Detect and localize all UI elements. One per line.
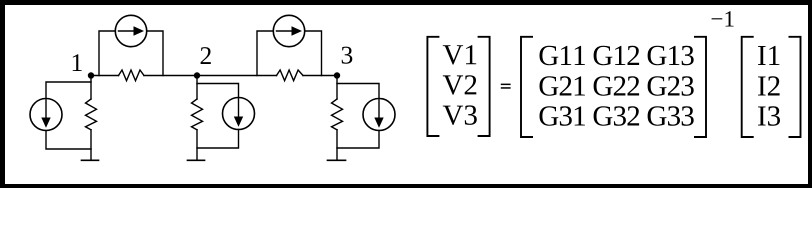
resistor R23 <box>277 70 304 81</box>
wire IS1 bottom return <box>46 131 91 150</box>
I vector entry I1 <box>758 46 779 65</box>
wire IS2 bottom return <box>197 130 239 149</box>
bracket I right <box>789 37 801 137</box>
ground node2 branch <box>188 159 205 161</box>
resistor R1 <box>86 99 97 130</box>
I vector entry I2 <box>758 76 780 95</box>
wire R2 bottom to ground <box>196 130 198 160</box>
V vector entry V1 <box>443 45 476 65</box>
node 1 <box>88 72 94 78</box>
wire node1 down to resistor R1 <box>90 76 92 100</box>
wire R23 to node3 <box>303 75 337 77</box>
node 2 <box>194 72 200 78</box>
wire node3 down to resistor R3 <box>336 76 338 100</box>
current source IS2 <box>223 98 255 130</box>
wire node3 branch to IS3 top <box>337 84 379 99</box>
ground node1 branch <box>82 159 99 161</box>
G matrix row 3 <box>540 106 694 126</box>
bracket G right <box>694 37 706 137</box>
ground node3 branch <box>328 159 346 161</box>
wire node2 down to resistor R2 <box>196 76 198 100</box>
I vector entry I3 <box>758 106 780 126</box>
current source IS1 <box>30 99 62 131</box>
current source IS12 <box>115 15 146 46</box>
exponent -1 <box>712 11 734 26</box>
wire R12 to node2 to R23 <box>144 75 277 77</box>
node label 1 <box>73 54 82 71</box>
resistor R2 <box>192 99 203 130</box>
wire R3 bottom to ground <box>336 130 338 160</box>
wire CS1 loop right leg <box>147 31 163 76</box>
V vector entry V3 <box>443 105 477 125</box>
equals sign <box>501 84 511 89</box>
wire node1 branch to IS1 top <box>46 82 91 99</box>
wire IS3 bottom return <box>337 131 379 149</box>
bracket V left <box>427 37 439 136</box>
V vector entry V2 <box>443 75 477 95</box>
wire node2 branch to IS2 top <box>197 84 239 98</box>
bracket G left <box>521 37 533 137</box>
current source IS23 <box>273 15 304 46</box>
wire R1 bottom to ground <box>90 130 92 160</box>
wire CS2 loop left leg <box>257 31 273 76</box>
G matrix row 2 <box>540 76 694 96</box>
bracket V right <box>478 37 490 136</box>
node label 2 <box>201 47 211 64</box>
wire node1 to R12 <box>91 75 119 77</box>
resistor R12 <box>119 70 145 81</box>
node label 3 <box>342 47 353 64</box>
wire CS2 loop right leg <box>305 31 322 76</box>
wire CS1 loop left leg <box>99 31 115 76</box>
node 3 <box>334 72 340 78</box>
G matrix row 1 <box>540 46 694 66</box>
current source IS3 <box>363 99 395 131</box>
resistor R3 <box>332 99 343 130</box>
bracket I left <box>742 37 754 137</box>
